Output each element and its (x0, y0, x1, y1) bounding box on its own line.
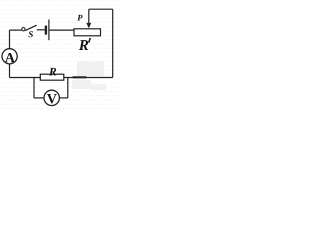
label P (77, 15, 82, 21)
voltmeter V (44, 90, 59, 105)
battery long thin plate (48, 20, 50, 41)
label S (28, 31, 32, 37)
wire bottom-right horizontal (64, 77, 113, 79)
switch S pivot (22, 28, 25, 31)
wire thick junction segment (73, 76, 87, 78)
rheostat R' body (74, 29, 101, 36)
rheostat slider arrow (88, 9, 90, 24)
ammeter A (2, 49, 17, 64)
wire left vertical upper (9, 30, 11, 49)
label R prime mark (89, 38, 91, 43)
resistor R body (40, 74, 64, 80)
wire top-left horizontal (10, 29, 22, 31)
wire voltmeter left horizontal (34, 97, 44, 99)
switch S blade (25, 25, 36, 30)
wire switch to battery (37, 29, 45, 31)
wire right vertical (112, 9, 114, 77)
wire battery to rheostat (50, 29, 75, 31)
wire voltmeter right horizontal (59, 97, 67, 99)
label R (49, 68, 56, 76)
wire left vertical lower (9, 64, 11, 78)
wire bottom-left horizontal (10, 77, 41, 79)
wire voltmeter branch left drop (33, 78, 35, 98)
battery short thick plate (45, 26, 47, 35)
label R' (79, 40, 88, 50)
wire voltmeter branch right rise (67, 78, 69, 98)
wire top-right horizontal (89, 8, 113, 10)
